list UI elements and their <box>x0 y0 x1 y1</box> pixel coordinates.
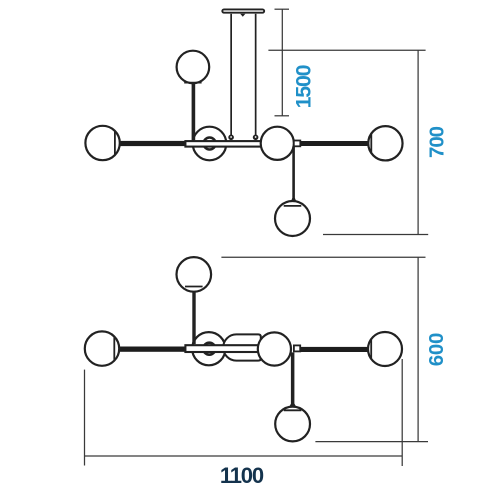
center globe <box>261 127 294 160</box>
svg-text:1500: 1500 <box>291 64 315 108</box>
hub disc (view 2) <box>192 332 225 365</box>
connector block (view 2) <box>294 345 300 351</box>
canopy plate <box>222 9 264 12</box>
svg-text:700: 700 <box>426 126 449 158</box>
main bar <box>185 141 277 147</box>
hub disc (end-on globe) <box>193 127 227 161</box>
bottom globe <box>275 201 310 236</box>
top globe <box>177 51 210 84</box>
suspension rod right <box>253 14 259 140</box>
top globe (view 2) <box>177 257 212 292</box>
drop stem <box>291 146 297 201</box>
top globe stem <box>192 82 196 140</box>
dimension 1100 lines <box>85 359 403 466</box>
svg-text:600: 600 <box>425 333 448 366</box>
left globe (view 2) <box>85 331 119 365</box>
canopy capsule (view 2) <box>223 334 261 360</box>
rod foot pinholes <box>230 136 256 138</box>
left globe <box>85 126 119 160</box>
svg-text:1100: 1100 <box>220 463 264 488</box>
dimension 700 extension + line <box>268 50 428 234</box>
dimension 600 extension + line <box>221 257 428 441</box>
left arm <box>120 141 186 146</box>
right arm <box>300 141 368 146</box>
right globe <box>368 126 402 160</box>
main bar (view 2) <box>185 345 274 352</box>
left arm (view 2) <box>119 347 185 352</box>
drop stem (view 2) <box>289 352 296 407</box>
suspension rod left <box>228 14 234 140</box>
center globe (view 2) <box>258 332 291 365</box>
top globe stem (view 2) <box>192 286 195 344</box>
connector block <box>294 141 301 147</box>
dimension 1500 vertical line <box>275 9 290 116</box>
canopy hook triangle <box>240 14 245 17</box>
bottom globe (view 2) <box>275 407 310 442</box>
right globe (view 2) <box>368 332 402 366</box>
right arm (view 2) <box>300 347 368 352</box>
